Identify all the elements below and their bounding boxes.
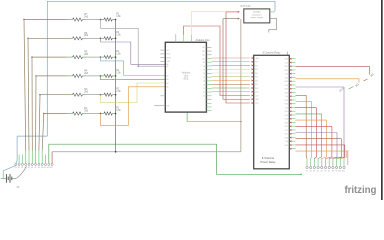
- svg-text:CO2: CO2: [285, 74, 289, 76]
- svg-text:SCL: SCL: [166, 50, 169, 52]
- svg-text:G2: G2: [309, 171, 311, 173]
- svg-text:NO3: NO3: [285, 81, 289, 83]
- svg-text:S1: S1: [15, 167, 17, 169]
- svg-text:S2: S2: [18, 167, 20, 169]
- svg-text:NO1: NO1: [285, 59, 289, 61]
- svg-text:NC7: NC7: [285, 134, 288, 136]
- svg-text:G1: G1: [306, 171, 308, 173]
- svg-text:OUT 6,3V: OUT 6,3V: [240, 6, 251, 8]
- svg-text:NC4: NC4: [285, 100, 288, 102]
- svg-text:Power Relay: Power Relay: [260, 160, 276, 164]
- svg-text:D8: D8: [203, 66, 205, 68]
- svg-text:NC3: NC3: [285, 89, 288, 91]
- svg-text:D1: D1: [203, 92, 205, 94]
- svg-text:A1: A1: [166, 65, 168, 68]
- svg-text:NC1: NC1: [285, 66, 288, 68]
- svg-text:CO4: CO4: [285, 96, 289, 98]
- svg-text:240VAC: 240VAC: [253, 11, 261, 14]
- svg-text:IN8: IN8: [255, 88, 258, 90]
- svg-text:D0: D0: [203, 96, 205, 98]
- svg-text:A5: A5: [166, 86, 168, 89]
- svg-text:S7: S7: [34, 167, 36, 169]
- svg-text:G6: G6: [324, 171, 326, 173]
- svg-text:8 Channel: 8 Channel: [262, 156, 275, 160]
- svg-text:D11: D11: [202, 55, 205, 57]
- svg-text:IN6: IN6: [255, 80, 258, 82]
- svg-text:NC8: NC8: [285, 145, 288, 147]
- svg-text:NC5: NC5: [285, 111, 288, 113]
- svg-text:A4: A4: [166, 82, 168, 85]
- svg-text:CO5: CO5: [285, 107, 289, 109]
- svg-text:G11: G11: [342, 171, 345, 173]
- svg-text:IN3: IN3: [255, 69, 258, 71]
- svg-text:G10: G10: [338, 171, 341, 173]
- svg-text:G7: G7: [328, 171, 330, 173]
- svg-text:G4: G4: [317, 171, 319, 173]
- svg-text:IN7: IN7: [255, 84, 258, 86]
- svg-text:A3: A3: [166, 78, 168, 81]
- svg-text:D6: D6: [203, 73, 205, 75]
- svg-text:8 Channel Relay: 8 Channel Relay: [263, 52, 281, 55]
- svg-text:IN1: IN1: [255, 62, 258, 64]
- svg-text:power supply: power supply: [251, 16, 264, 19]
- svg-text:NO5: NO5: [285, 104, 289, 106]
- svg-text:NO2: NO2: [285, 70, 289, 72]
- svg-text:D2: D2: [203, 88, 205, 90]
- svg-text:S6: S6: [31, 167, 33, 169]
- svg-text:D12: D12: [202, 51, 205, 53]
- svg-text:D3: D3: [203, 84, 205, 86]
- svg-text:CO6: CO6: [285, 119, 289, 121]
- svg-text:S12: S12: [50, 167, 53, 169]
- svg-text:Arduino Uno: Arduino Uno: [196, 39, 211, 42]
- svg-text:IN5: IN5: [255, 77, 258, 79]
- svg-text:NO8: NO8: [285, 137, 289, 139]
- svg-text:CO1: CO1: [285, 62, 289, 64]
- svg-text:G8: G8: [332, 171, 334, 173]
- svg-text:S8: S8: [38, 167, 40, 169]
- svg-text:D5: D5: [203, 77, 205, 79]
- svg-text:G5: G5: [320, 171, 322, 173]
- svg-text:D9: D9: [203, 62, 205, 64]
- svg-text:CO7: CO7: [285, 130, 289, 132]
- svg-text:D10: D10: [202, 58, 205, 60]
- svg-text:S3: S3: [21, 167, 23, 169]
- svg-text:S5: S5: [28, 167, 30, 169]
- svg-text:AREF: AREF: [166, 56, 171, 59]
- svg-text:CO8: CO8: [285, 141, 289, 143]
- svg-text:NC6: NC6: [285, 122, 288, 124]
- svg-text:D4: D4: [203, 81, 205, 83]
- svg-text:step-down: step-down: [252, 13, 262, 16]
- svg-text:NO4: NO4: [285, 92, 289, 94]
- svg-text:IN4: IN4: [255, 73, 258, 75]
- svg-text:D7: D7: [203, 69, 205, 71]
- svg-text:NO6: NO6: [285, 115, 289, 117]
- svg-text:IN2: IN2: [255, 65, 258, 67]
- svg-text:NC2: NC2: [285, 77, 288, 79]
- svg-text:(R3): (R3): [184, 78, 189, 81]
- svg-text:CO3: CO3: [285, 85, 289, 87]
- svg-text:3V: 3V: [17, 186, 20, 189]
- svg-text:fritzing: fritzing: [345, 185, 377, 196]
- svg-text:A2: A2: [166, 74, 168, 77]
- svg-text:D13: D13: [202, 47, 205, 49]
- svg-text:G3: G3: [313, 171, 315, 173]
- svg-text:NO7: NO7: [285, 126, 289, 128]
